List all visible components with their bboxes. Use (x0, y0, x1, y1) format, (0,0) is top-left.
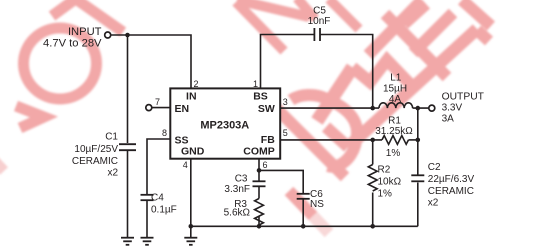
svg-text:31.25kΩ: 31.25kΩ (375, 126, 413, 137)
svg-text:8: 8 (162, 128, 167, 138)
svg-text:IN: IN (186, 91, 197, 103)
svg-text:R2: R2 (378, 165, 391, 176)
svg-text:3: 3 (283, 97, 288, 107)
svg-text:10µF/25V: 10µF/25V (74, 144, 118, 155)
svg-text:5: 5 (283, 128, 288, 138)
svg-text:3.3nF: 3.3nF (224, 184, 250, 195)
svg-text:EN: EN (175, 103, 190, 115)
svg-text:22µF/6.3V: 22µF/6.3V (428, 174, 475, 185)
svg-text:2: 2 (194, 79, 199, 89)
svg-text:R1: R1 (388, 116, 401, 127)
svg-text:COMP: COMP (243, 145, 275, 157)
svg-text:0.1µF: 0.1µF (151, 204, 177, 215)
svg-text:BS: BS (253, 91, 268, 103)
svg-text:C3: C3 (235, 173, 248, 184)
svg-text:10kΩ: 10kΩ (378, 177, 402, 188)
svg-text:MP2303A: MP2303A (200, 120, 249, 132)
svg-text:INPUT: INPUT (68, 26, 102, 38)
svg-text:15µH: 15µH (383, 84, 407, 95)
svg-text:C1: C1 (105, 132, 118, 143)
svg-text:OUTPUT: OUTPUT (442, 91, 485, 102)
svg-text:3.3V: 3.3V (442, 102, 463, 113)
svg-text:x2: x2 (107, 168, 118, 179)
svg-text:7: 7 (155, 97, 160, 107)
svg-text:FB: FB (261, 134, 275, 146)
svg-text:1%: 1% (386, 148, 401, 159)
svg-text:C4: C4 (151, 193, 164, 204)
svg-text:x2: x2 (428, 198, 439, 209)
svg-text:4.7V to 28V: 4.7V to 28V (43, 38, 102, 50)
svg-text:10nF: 10nF (308, 16, 331, 27)
svg-text:CERAMIC: CERAMIC (428, 186, 474, 197)
svg-text:C5: C5 (313, 5, 326, 16)
svg-text:1%: 1% (378, 189, 393, 200)
svg-text:L1: L1 (390, 73, 402, 84)
svg-text:C2: C2 (428, 162, 441, 173)
svg-text:5.6kΩ: 5.6kΩ (224, 208, 251, 219)
svg-text:GND: GND (181, 145, 205, 157)
svg-text:6: 6 (263, 160, 268, 170)
svg-text:NS: NS (310, 199, 324, 210)
svg-text:CERAMIC: CERAMIC (72, 156, 118, 167)
svg-text:1: 1 (253, 79, 258, 89)
svg-text:4: 4 (183, 160, 188, 170)
svg-text:3A: 3A (442, 113, 455, 124)
svg-text:SW: SW (258, 103, 275, 115)
svg-text:4A: 4A (389, 94, 402, 105)
